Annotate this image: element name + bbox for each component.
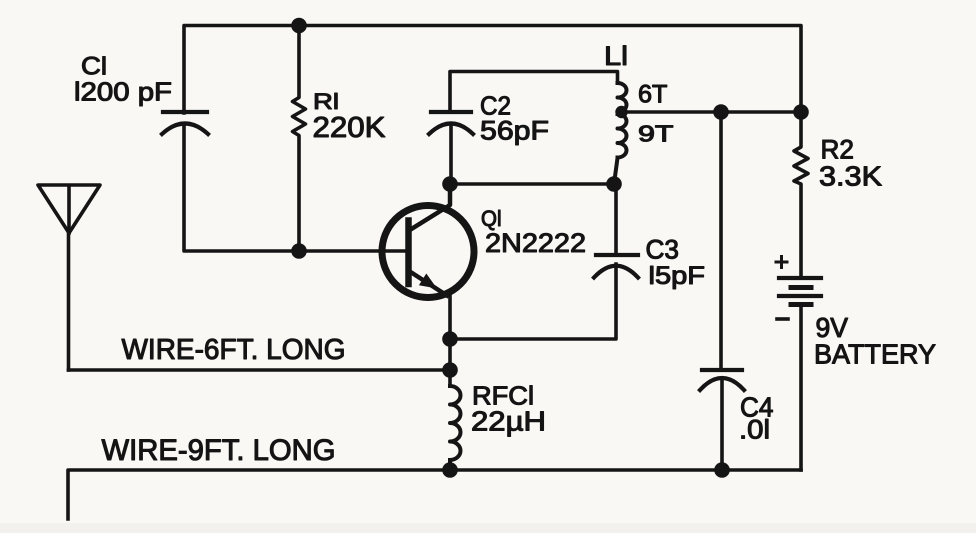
transistor Q1 <box>382 184 474 298</box>
battery B1 9V <box>779 278 821 305</box>
wire: C2 top lead and tank top <box>450 72 618 113</box>
svg-text:WIRE-6FT. LONG: WIRE-6FT. LONG <box>122 334 346 366</box>
svg-text:WIRE-9FT. LONG: WIRE-9FT. LONG <box>102 434 336 467</box>
wire: base wire from C1 to Q1 <box>184 124 409 251</box>
junction dot: L1 tap <box>615 106 627 118</box>
wire: C3 top lead <box>614 184 618 255</box>
battery minus sign <box>777 317 788 321</box>
junction dot: collector node <box>442 176 458 192</box>
svg-text:9T: 9T <box>638 121 674 147</box>
junction dot: R1 top <box>291 18 307 34</box>
svg-text:3.3K: 3.3K <box>819 161 882 192</box>
capacitor C3 <box>594 255 638 278</box>
battery plus sign <box>776 257 787 268</box>
svg-text:2N2222: 2N2222 <box>485 228 586 258</box>
resistor R2 <box>794 112 808 276</box>
wire: Q1 emitter lead <box>448 296 452 386</box>
wire: battery negative lead <box>799 306 803 470</box>
junction dot: L1 bottom <box>606 176 622 192</box>
junction dot: emitter / C3 wire <box>442 331 458 347</box>
svg-text:.0l: .0l <box>739 415 770 445</box>
wire: C2 bottom lead <box>449 124 453 184</box>
svg-text:l5pF: l5pF <box>649 262 706 290</box>
wire: 9 ft ground wire <box>68 470 801 519</box>
svg-text:l200 pF: l200 pF <box>74 77 172 107</box>
wire: C4 bottom lead <box>720 379 724 470</box>
wire: 6 ft antenna wire <box>69 368 451 372</box>
junction dot: emitter / 6ft wire <box>442 362 458 378</box>
wire: collector node to L1 bottom <box>450 182 614 186</box>
inductor RFC1 <box>450 386 461 470</box>
svg-text:6T: 6T <box>638 81 668 109</box>
resistor R1 <box>293 26 306 252</box>
capacitor C1 <box>162 112 208 134</box>
inductor L1 <box>614 83 627 184</box>
junction dot: RFC1 bottom <box>442 462 458 478</box>
svg-text:C3: C3 <box>646 235 680 265</box>
svg-text:220K: 220K <box>313 112 387 144</box>
wire: top supply bus <box>184 26 801 114</box>
antenna <box>38 185 100 370</box>
junction dot: supply rail corner <box>793 104 809 120</box>
wire: L1 tap to supply rail <box>619 110 801 114</box>
svg-text:Rl: Rl <box>313 89 339 114</box>
svg-text:Ll: Ll <box>604 41 628 71</box>
wire: emitter to C3 bottom <box>450 264 616 339</box>
svg-text:BATTERY: BATTERY <box>814 339 936 370</box>
capacitor C2 <box>429 112 473 134</box>
junction dot: C4 top <box>713 104 729 120</box>
junction dot: C4 bottom <box>714 462 730 478</box>
svg-text:56pF: 56pF <box>480 116 549 146</box>
svg-text:22µH: 22µH <box>471 406 546 437</box>
wire: C4 top lead <box>719 112 723 370</box>
capacitor C4 <box>700 370 744 390</box>
junction dot: R1 bottom / base node <box>291 243 307 259</box>
